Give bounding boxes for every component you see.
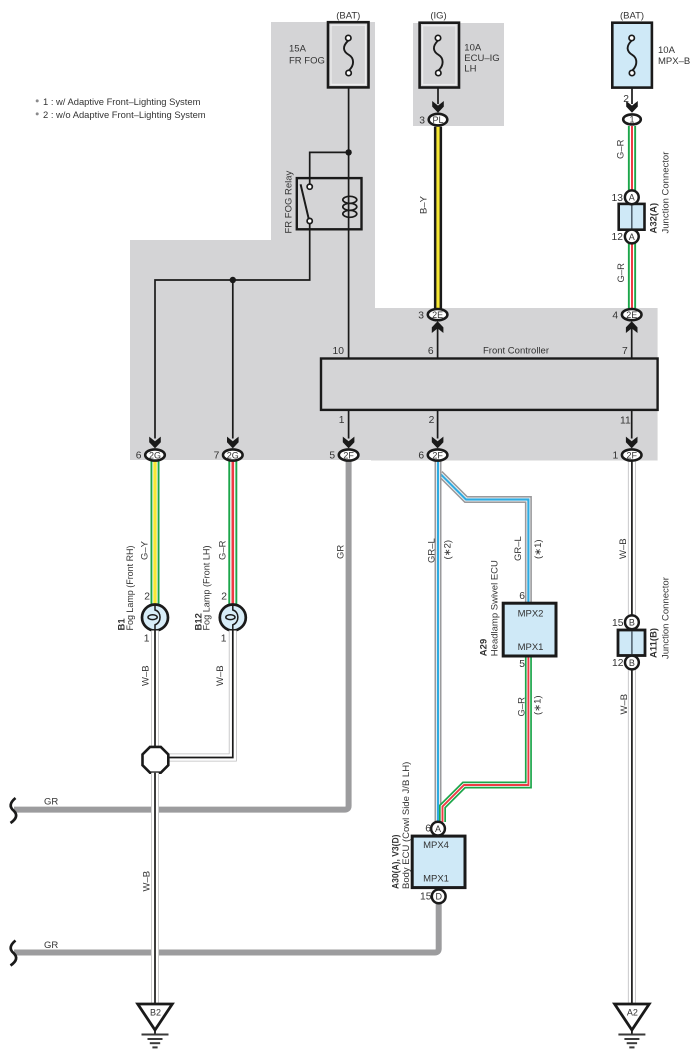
svg-text:5: 5: [519, 659, 525, 670]
svg-text:G–R: G–R: [218, 540, 229, 560]
svg-text:D: D: [435, 892, 442, 902]
svg-text:B: B: [629, 658, 635, 668]
svg-text:W–B: W–B: [215, 665, 226, 686]
svg-text:G–Y: G–Y: [140, 540, 151, 560]
svg-text:1: 1: [221, 634, 227, 645]
fuse 15A FR FOG: [328, 22, 369, 87]
svg-text:6: 6: [428, 346, 434, 357]
label G-R (*1) at A29: [517, 695, 544, 716]
svg-text:ECU–IG: ECU–IG: [464, 53, 499, 64]
svg-text:11: 11: [620, 416, 631, 427]
svg-text:A11(B): A11(B): [649, 628, 660, 658]
svg-text:3: 3: [418, 310, 424, 321]
name label A29 Headlamp Swivel ECU: [479, 560, 501, 656]
svg-text:W–B: W–B: [141, 871, 152, 892]
svg-text:GR: GR: [336, 545, 347, 559]
svg-text:B–Y: B–Y: [419, 195, 430, 214]
fuse 10A ECU-IG LH: [420, 23, 459, 88]
svg-text:MPX4: MPX4: [423, 840, 449, 851]
arrow into 2E pin 4: [626, 321, 638, 333]
pin D circle Body ECU: [432, 890, 446, 904]
junction octagon: [143, 747, 169, 773]
svg-text:2E: 2E: [432, 310, 443, 320]
svg-text:G–R: G–R: [616, 139, 627, 159]
fog lamp B1: [142, 605, 168, 631]
svg-text:1: 1: [339, 415, 345, 426]
arrow into 2F pin 1: [626, 437, 638, 449]
connector 2G pin 6: [145, 449, 165, 460]
pin A circle Body ECU: [431, 822, 445, 836]
svg-text:Junction Connector: Junction Connector: [661, 152, 672, 234]
svg-text:2G: 2G: [149, 450, 161, 460]
ECU box A30 Body ECU: [412, 836, 465, 888]
value label 10A ECU-IG LH: [464, 43, 499, 75]
arrow into 2F pin 6: [432, 437, 444, 449]
fog lamp B12: [220, 605, 246, 631]
svg-text:PL: PL: [432, 115, 443, 125]
svg-text:2G: 2G: [227, 450, 239, 460]
junction dot on BAT wire: [345, 149, 351, 155]
legend note 1: [36, 96, 201, 107]
wire fuse FR FOG to Front Controller pin 10: [348, 87, 350, 358]
svg-text:2F: 2F: [432, 450, 443, 460]
fuse 10A MPX-B: [612, 23, 652, 88]
wire G-R from junction connector A32 to 2E: [628, 244, 636, 309]
svg-text:15: 15: [612, 618, 624, 629]
svg-text:3: 3: [419, 115, 425, 126]
connector 2E pin 4: [622, 309, 642, 320]
connector PL: [429, 114, 448, 126]
svg-text:Fog Lamp (Front RH): Fog Lamp (Front RH): [125, 546, 136, 631]
svg-text:12: 12: [612, 232, 624, 243]
wire branch to relay switch: [310, 152, 349, 184]
arrow into 2F pin 5: [343, 437, 355, 449]
wire W-B from A11 to ground A2: [628, 669, 636, 1004]
connector 2G pin 7: [223, 449, 243, 460]
svg-text:7: 7: [214, 451, 220, 462]
svg-text:A29: A29: [479, 639, 490, 656]
svg-text:LH: LH: [464, 64, 476, 75]
svg-text:W–B: W–B: [619, 694, 630, 715]
wire W-B from B12 to junction octagon: [169, 631, 233, 758]
wire W-B from 2F pin 1 to A11: [628, 462, 636, 617]
legend note 2: [36, 109, 206, 120]
svg-text:7: 7: [622, 346, 628, 357]
svg-text:4: 4: [612, 310, 618, 321]
arrow into 2G pin 7: [227, 437, 239, 449]
connector 1 MPX-B: [623, 114, 641, 124]
svg-text:GR: GR: [44, 797, 58, 808]
svg-text:A2: A2: [627, 1008, 638, 1018]
wire Front Controller pin 1 to 2F: [348, 410, 350, 439]
shaded junction-block region top-left: [130, 22, 375, 460]
label GR-L (*1): [513, 536, 544, 561]
connector 2F pin 1: [622, 449, 642, 460]
svg-text:2: 2: [221, 592, 227, 603]
svg-text:6: 6: [136, 451, 142, 462]
wire G-R from A29 pin 5 to Body ECU: [443, 656, 529, 822]
svg-text:A32(A): A32(A): [649, 203, 660, 234]
svg-text:(BAT): (BAT): [620, 11, 644, 22]
relay switch: [301, 184, 313, 224]
svg-text:(∗1): (∗1): [533, 695, 544, 715]
wire IG fuse to PL connector: [437, 88, 439, 105]
svg-text:15: 15: [420, 892, 432, 903]
ECU box A29 Headlamp Swivel ECU: [503, 603, 556, 656]
svg-text:Headlamp Swivel ECU: Headlamp Swivel ECU: [490, 560, 501, 656]
arrow into 2G pin 6: [149, 437, 161, 449]
svg-text:1: 1: [144, 634, 150, 645]
svg-text:MPX–B: MPX–B: [658, 56, 690, 67]
svg-text:(∗1): (∗1): [533, 539, 544, 559]
svg-text:FR FOG: FR FOG: [289, 56, 325, 67]
svg-text:B2: B2: [150, 1008, 161, 1018]
junction connector A32(A): [619, 190, 645, 243]
svg-text:GR: GR: [44, 940, 58, 951]
value label 10A MPX-B: [658, 45, 690, 67]
svg-text:G–R: G–R: [517, 697, 528, 717]
name label A32(A) Junction Connector: [649, 152, 672, 234]
connector 2F pin 6: [428, 449, 448, 460]
svg-text:A: A: [629, 193, 635, 203]
wire W-B from B1 to junction octagon: [151, 631, 159, 748]
svg-text:Fog Lamp (Front LH): Fog Lamp (Front LH): [202, 546, 213, 631]
svg-text:FR FOG Relay: FR FOG Relay: [284, 170, 295, 233]
ground B2: [138, 1004, 173, 1047]
shaded region main band: [371, 308, 658, 461]
wire B-Y from PL to 2E: [434, 127, 442, 309]
svg-text:MPX1: MPX1: [518, 642, 544, 653]
connector 2E pin 3: [428, 309, 448, 320]
name label B12 Fog Lamp (Front LH): [194, 546, 213, 631]
wire GR from Body ECU pin 15 to left break: [14, 903, 439, 953]
svg-text:15A: 15A: [289, 44, 307, 55]
arrow into PL: [432, 101, 444, 113]
name label A11(B) Junction Connector: [649, 577, 672, 659]
wire GR from 2F pin 5 to left break: [14, 462, 349, 810]
wire Front Controller pin 6 to 2E: [437, 324, 439, 359]
ECU box Front Controller: [321, 346, 658, 410]
svg-text:MPX2: MPX2: [518, 609, 544, 620]
svg-text:GR–L: GR–L: [513, 536, 524, 561]
relay coil: [343, 196, 357, 217]
break symbol left GR 2: [11, 941, 17, 966]
wire MPX-B fuse to connector 1: [631, 88, 633, 104]
wire G-R from 2G to fog lamp B12: [228, 462, 237, 606]
ground A2: [615, 1004, 650, 1047]
svg-text:1: 1: [629, 115, 634, 125]
arrow into connector 1: [626, 101, 638, 113]
svg-text:G–R: G–R: [616, 263, 627, 283]
svg-text:2 : w/o Adaptive Front–Lightin: 2 : w/o Adaptive Front–Lighting System: [43, 109, 206, 120]
wire GR-L from 2F pin 6 to Body ECU: [435, 462, 442, 823]
relay box FR FOG Relay: [284, 170, 362, 233]
svg-text:Front Controller: Front Controller: [483, 346, 549, 357]
svg-text:Body ECU (Cowl Side J/B LH): Body ECU (Cowl Side J/B LH): [401, 762, 412, 889]
wire relay switch to fog lamp connectors: [155, 224, 310, 439]
svg-text:(∗2): (∗2): [443, 540, 454, 560]
svg-text:6: 6: [425, 824, 431, 835]
svg-text:10: 10: [333, 346, 345, 357]
svg-text:(BAT): (BAT): [336, 11, 360, 22]
wire to 2G pin 7: [232, 280, 234, 439]
junction connector A11(B): [618, 615, 645, 669]
svg-text:10A: 10A: [464, 43, 482, 54]
svg-text:1 : w/ Adaptive Front–Lighting: 1 : w/ Adaptive Front–Lighting System: [43, 96, 201, 107]
connector 2F pin 5: [339, 449, 359, 460]
svg-text:6: 6: [519, 591, 525, 602]
svg-text:5: 5: [329, 451, 335, 462]
svg-text:GR–L: GR–L: [426, 538, 437, 563]
svg-text:A: A: [435, 824, 441, 834]
wire Front Controller pin 11 to 2F: [631, 410, 633, 439]
wire Front Controller pin 7 to 2E: [631, 324, 633, 359]
svg-text:2F: 2F: [626, 450, 637, 460]
svg-text:W–B: W–B: [618, 538, 629, 559]
svg-text:(IG): (IG): [430, 11, 446, 22]
svg-text:A30(A), V3(D): A30(A), V3(D): [391, 835, 402, 890]
svg-text:13: 13: [612, 193, 624, 204]
svg-text:2F: 2F: [343, 450, 354, 460]
svg-text:10A: 10A: [658, 45, 676, 56]
svg-text:6: 6: [418, 451, 424, 462]
value label 15A FR FOG: [289, 44, 325, 67]
svg-text:1: 1: [612, 451, 618, 462]
name label A30(A) V3(D) Body ECU: [391, 762, 413, 889]
shaded region around IG fuse: [413, 23, 504, 126]
wire GR-L branch to A29 pin 6: [440, 474, 528, 604]
svg-text:B: B: [629, 618, 635, 628]
svg-text:MPX1: MPX1: [423, 874, 449, 885]
wire Front Controller pin 2 to 2F: [437, 410, 439, 439]
label GR-L (*2): [426, 538, 453, 563]
svg-text:2: 2: [144, 592, 150, 603]
svg-text:Junction Connector: Junction Connector: [661, 577, 672, 659]
wire G-R from connector 1 to junction connector A32: [628, 126, 636, 191]
arrow into 2E pin 3: [432, 321, 444, 333]
svg-text:W–B: W–B: [141, 665, 152, 686]
name label B1 Fog Lamp (Front RH): [117, 546, 136, 631]
junction dot at relay output: [230, 277, 236, 283]
svg-text:12: 12: [612, 658, 624, 669]
wire W-B from octagon to ground B2: [151, 773, 159, 1004]
svg-text:2E: 2E: [626, 310, 637, 320]
break symbol left GR 1: [11, 798, 17, 823]
svg-text:2: 2: [429, 415, 435, 426]
svg-text:A: A: [629, 232, 635, 242]
wire G-Y from 2G to fog lamp B1: [151, 462, 160, 606]
